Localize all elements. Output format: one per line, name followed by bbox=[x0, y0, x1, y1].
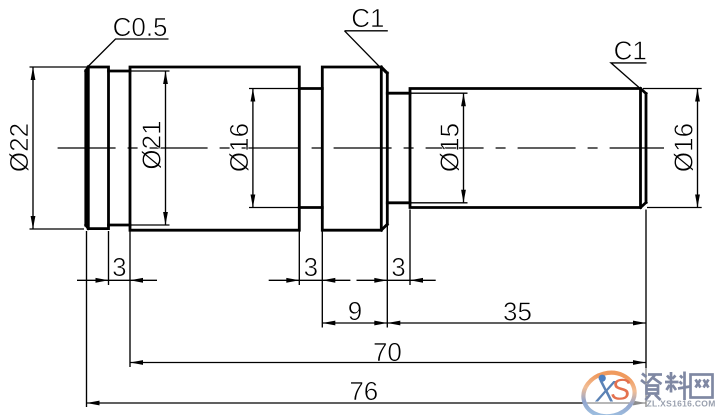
shaft outline bbox=[86, 67, 646, 230]
svg-text:C1: C1 bbox=[351, 3, 384, 33]
svg-text:Ø22: Ø22 bbox=[4, 123, 34, 172]
watermark chinese characters 资料网 bbox=[641, 372, 713, 401]
Ø16 left arrows bbox=[251, 89, 256, 102]
logo dot bbox=[599, 375, 606, 382]
dim Ø21 line bbox=[165, 71, 167, 225]
groove 1 bbox=[109, 71, 131, 225]
dim 76 arrows bbox=[87, 401, 100, 406]
dim Ø16 right line bbox=[697, 89, 699, 208]
svg-text:3: 3 bbox=[112, 252, 126, 282]
thin dimension/extension lines bbox=[30, 67, 702, 407]
svg-text:3: 3 bbox=[304, 252, 318, 282]
left face bbox=[84, 71, 87, 225]
dim 9 and 35 line bbox=[322, 322, 646, 324]
vertical extension lines bottom bbox=[86, 231, 88, 407]
svg-text:9: 9 bbox=[348, 296, 362, 326]
dim 35 arrows bbox=[387, 321, 400, 326]
groove 2 Ø16 bbox=[299, 89, 322, 208]
leader C1 right bbox=[611, 63, 647, 89]
svg-text:S: S bbox=[611, 374, 631, 407]
dim Ø16 right ext bbox=[643, 89, 702, 208]
flange Ø22 bbox=[88, 67, 108, 229]
Ø16 right arrows bbox=[695, 89, 700, 102]
svg-text:C0.5: C0.5 bbox=[113, 12, 168, 42]
dim 3 first arrows bbox=[96, 278, 109, 283]
svg-text:70: 70 bbox=[373, 337, 402, 367]
svg-text:35: 35 bbox=[503, 297, 532, 327]
dim 76 line bbox=[87, 402, 647, 404]
collar bbox=[322, 67, 381, 230]
section Ø21 bbox=[130, 67, 299, 230]
dim 3 second arrows bbox=[286, 278, 299, 283]
leader C0.5 bbox=[88, 31, 647, 89]
dim 3 third line bbox=[357, 279, 436, 281]
dim 70 arrows bbox=[130, 360, 143, 365]
dim 9 arrows bbox=[322, 321, 335, 326]
svg-text:C1: C1 bbox=[614, 36, 647, 66]
svg-text:Ø15: Ø15 bbox=[435, 123, 465, 172]
dim Ø15 line bbox=[463, 93, 465, 203]
leader C1 top bbox=[345, 31, 388, 74]
svg-text:ZL.XS1616.COM: ZL.XS1616.COM bbox=[647, 398, 716, 408]
dim 3 second line bbox=[269, 279, 351, 281]
Ø21 arrows bbox=[163, 71, 168, 84]
Ø15 arrows bbox=[461, 93, 466, 106]
svg-text:Ø16: Ø16 bbox=[224, 123, 254, 172]
right section Ø16 bbox=[410, 89, 641, 208]
logo ellipse ring bbox=[579, 367, 639, 415]
svg-text:Ø16: Ø16 bbox=[669, 123, 699, 172]
svg-text:76: 76 bbox=[349, 376, 378, 406]
dim Ø22 line bbox=[32, 67, 34, 229]
dim Ø16 left line bbox=[252, 89, 254, 208]
dim 3 third arrows bbox=[374, 278, 387, 283]
watermark white overlay bbox=[583, 368, 717, 415]
left chamfer C0.5 bbox=[86, 67, 89, 229]
dim 70 line bbox=[130, 362, 646, 364]
dim 3 first line bbox=[77, 279, 157, 281]
svg-text:Ø21: Ø21 bbox=[137, 120, 167, 169]
centerline bbox=[58, 147, 664, 149]
collar chamfer C1 bbox=[381, 67, 387, 230]
end chamfer C1 bbox=[641, 89, 647, 208]
dim Ø16 left ext bbox=[249, 89, 299, 208]
dim Ø21 ext bbox=[130, 71, 170, 225]
Ø22 arrows bbox=[31, 67, 36, 80]
svg-text:3: 3 bbox=[391, 252, 405, 282]
groove 3 Ø15 bbox=[387, 93, 410, 203]
dim Ø22 ext bbox=[30, 67, 88, 229]
dim Ø15 ext bbox=[411, 93, 468, 203]
arrowheads bbox=[31, 67, 700, 405]
